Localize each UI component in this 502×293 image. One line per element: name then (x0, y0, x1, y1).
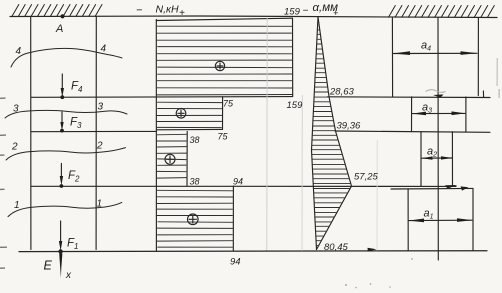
right stepped bar segment4 left edge (391, 18, 393, 97)
tick on base line (368, 248, 377, 252)
svg-text:3: 3 (13, 104, 19, 115)
svg-text:75: 75 (223, 99, 234, 109)
svg-text:F1: F1 (67, 238, 78, 252)
N diagram rect 159 right edge (292, 18, 294, 96)
right stepped bar segment1 top edge (391, 187, 473, 190)
svg-text:N,кН: N,кН (156, 4, 179, 16)
force F1 arrow (60, 221, 62, 242)
displacement diagram right boundary curve (317, 17, 352, 250)
right stepped bar segment1 right edge (472, 188, 474, 250)
left margin smudges (0, 98, 7, 268)
N diagram rect 38 plus sign (165, 154, 175, 164)
force F2 arrow (60, 164, 62, 178)
svg-text:159: 159 (287, 100, 304, 111)
right stepped bar segment3 right edge (465, 97, 467, 132)
svg-text:38: 38 (190, 135, 200, 145)
N diagram rect 38 hatch (157, 134, 187, 178)
svg-text:a3: a3 (422, 102, 432, 115)
svg-text:57,25: 57,25 (354, 172, 378, 183)
force F4 arrow (61, 74, 63, 89)
bar right edge (95, 17, 97, 250)
svg-text:2: 2 (11, 142, 18, 153)
ceiling hatch left (12, 5, 102, 17)
svg-text:38: 38 (190, 177, 200, 187)
right stepped bar segment1 left edge (407, 189, 409, 251)
svg-text:1: 1 (14, 200, 20, 211)
right stepped bar axis (437, 18, 439, 261)
ceiling hatch right (389, 6, 495, 18)
axis x arrow below E (59, 254, 62, 279)
svg-text:F3: F3 (70, 117, 82, 131)
svg-text:2: 2 (96, 141, 103, 152)
bottom base line (19, 250, 487, 253)
N diagram rect 75 bottom edge (156, 128, 222, 130)
N diagram rect 94 hatch (157, 190, 233, 247)
dimension a2 arrow (422, 157, 452, 159)
node A dot (60, 14, 64, 18)
N diagram rect 159 hatch (157, 26, 292, 95)
svg-text:75: 75 (218, 132, 229, 142)
faint squiggle above a3 (426, 90, 446, 93)
svg-text:39,36: 39,36 (337, 121, 361, 132)
svg-text:+: + (333, 8, 338, 18)
N diagram rect 38 right edge (186, 132, 188, 186)
right stepped bar segment2 right edge (451, 132, 453, 187)
svg-text:28,63: 28,63 (329, 87, 354, 98)
displacement diagram left edge (312, 17, 319, 250)
right stepped bar segment4 right edge (477, 18, 479, 96)
svg-text:F2: F2 (68, 170, 80, 184)
svg-text:A: A (55, 23, 63, 35)
N diagram rect 75 hatch (157, 102, 222, 127)
section line 2-2 level (y=131.5) (31, 130, 156, 132)
wire wavy cut line 2-2 (6, 148, 126, 160)
svg-text:159: 159 (284, 7, 301, 18)
section line 1-1 level (y=186) (31, 185, 456, 187)
N diagram rect 75 right edge (222, 97, 224, 130)
faint fold line 1 (266, 18, 268, 251)
scan noise dots bottom (345, 258, 413, 288)
wire wavy cut line 3-3 (5, 110, 127, 118)
ceiling line (10, 16, 497, 18)
tick right of segment4 (482, 91, 484, 97)
svg-text:−: − (303, 6, 309, 17)
svg-text:4: 4 (101, 44, 107, 55)
svg-text:E: E (44, 259, 53, 273)
bar left edge (30, 17, 32, 250)
ink blob at axis/section3 crossing (433, 94, 444, 97)
faint fold line 3 (376, 140, 378, 251)
right stepped bar segment2 left edge (420, 132, 422, 187)
svg-text:x: x (65, 270, 72, 281)
svg-text:94: 94 (233, 177, 243, 187)
N diagram axis (left edge) (155, 20, 157, 252)
dimension a3 arrow (413, 112, 466, 114)
N diagram rect 94 right edge (232, 186, 234, 251)
ink blob at segment1 top right (461, 186, 469, 190)
section line 3-3 level (y=97) (31, 96, 293, 99)
svg-text:3: 3 (98, 102, 104, 113)
displacement diagram hatch (312, 30, 351, 246)
ink blob at segment2 bottom right (445, 185, 458, 189)
wire wavy cut line 4-4 (11, 48, 122, 67)
svg-text:+: + (179, 8, 185, 19)
svg-text:a4: a4 (421, 40, 431, 53)
N diagram rect 94 plus sign (188, 214, 199, 225)
dimension a4 arrow (394, 52, 478, 54)
force F3 arrow (61, 112, 63, 123)
wire wavy cut line 1-1 (8, 202, 122, 216)
svg-text:a1: a1 (424, 208, 434, 221)
N diagram rect 159 top edge (156, 18, 292, 20)
right margin smudge (496, 58, 498, 86)
right stepped bar segment3 left edge (411, 97, 413, 132)
faint fold line 2 (301, 95, 303, 251)
dimension a1 arrow (409, 219, 472, 221)
svg-text:80,45: 80,45 (324, 242, 348, 253)
svg-text:94: 94 (230, 257, 241, 268)
svg-text:1: 1 (97, 199, 103, 210)
svg-text:−: − (136, 5, 143, 17)
N diagram rect 75 plus sign (176, 109, 186, 119)
svg-text:a2: a2 (427, 146, 437, 159)
svg-text:4: 4 (16, 46, 22, 57)
svg-text:F4: F4 (71, 81, 83, 95)
N diagram rect 159 plus sign (215, 61, 224, 70)
